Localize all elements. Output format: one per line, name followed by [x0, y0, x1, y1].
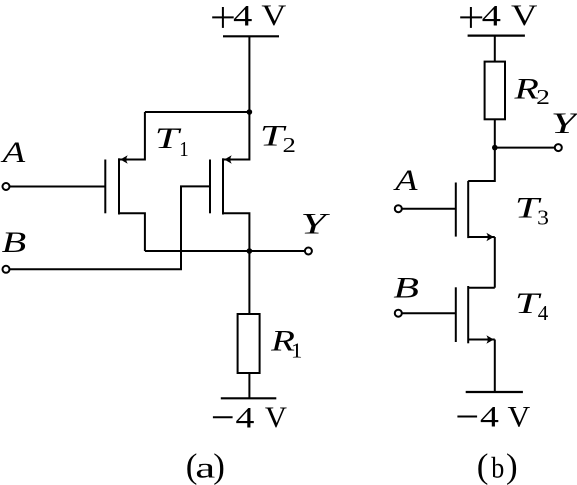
node: output junction (b)	[492, 145, 498, 151]
wire: drain node to T1 drain	[145, 111, 250, 113]
svg-text:V: V	[265, 400, 287, 434]
wire: A to T1 gate	[9, 186, 105, 188]
+4 V supply label (a)	[212, 0, 286, 32]
output terminal Y (b)	[555, 144, 562, 151]
caption (b)	[477, 446, 518, 485]
-4 V supply label (a)	[213, 400, 287, 434]
transistor T4	[456, 286, 495, 344]
svg-text:B: B	[393, 271, 419, 304]
label B (b)	[393, 271, 419, 304]
svg-text:4: 4	[538, 301, 549, 325]
supply rail (a)	[223, 35, 279, 37]
label B (a)	[2, 225, 27, 259]
label T3	[515, 192, 542, 225]
svg-text:4: 4	[233, 0, 252, 32]
resistor R1	[238, 314, 260, 373]
transistor T1	[105, 112, 145, 251]
svg-text:Y: Y	[300, 208, 330, 241]
svg-text:): )	[506, 446, 518, 485]
wire: R1 to ground (a)	[248, 373, 250, 398]
wire: A to T3 gate	[402, 208, 456, 210]
svg-text:): )	[213, 447, 225, 485]
label Y (b)	[551, 108, 577, 141]
label T4	[515, 287, 542, 320]
label Y (a)	[300, 208, 330, 241]
svg-text:Y: Y	[551, 108, 577, 141]
caption (a)	[186, 447, 225, 485]
wire: output node to R1	[248, 251, 250, 314]
svg-text:3: 3	[537, 206, 549, 229]
svg-text:4: 4	[236, 402, 255, 435]
svg-text:A: A	[393, 164, 418, 197]
svg-text:V: V	[261, 0, 286, 32]
label A (b)	[393, 164, 418, 197]
input terminal A (b)	[395, 205, 402, 212]
input terminal B (a)	[3, 266, 10, 273]
label R2	[513, 72, 539, 105]
wire: supply rail to drain node (a)	[248, 36, 250, 112]
node: output junction (a)	[247, 248, 253, 254]
svg-text:a: a	[195, 452, 215, 485]
label A (a)	[0, 136, 25, 169]
output terminal Y (a)	[305, 248, 312, 255]
ground rail -4V (b)	[466, 391, 523, 393]
svg-text:A: A	[0, 136, 25, 169]
wire: output Y (a)	[145, 250, 305, 252]
input terminal A (a)	[3, 183, 10, 190]
input terminal B (b)	[395, 310, 402, 317]
node: T1/T2 drain junction	[247, 109, 253, 115]
-4 V supply label (b)	[457, 400, 530, 434]
+4 V supply label (b)	[460, 0, 537, 32]
resistor R2	[485, 62, 505, 120]
supply rail (b)	[468, 34, 525, 36]
label R1	[270, 324, 295, 358]
svg-text:V: V	[511, 0, 537, 32]
wire: B to T4 gate	[402, 312, 456, 314]
svg-text:V: V	[508, 400, 531, 433]
wire: node to Y terminal (b)	[495, 147, 555, 149]
svg-text:4: 4	[482, 0, 501, 32]
wire: R2 to output node (b)	[494, 119, 496, 147]
svg-text:2: 2	[283, 135, 296, 158]
wire: B to T2 gate	[9, 186, 210, 269]
label T1	[155, 122, 182, 155]
wire: T4 source to ground (b)	[494, 340, 496, 393]
svg-text:b: b	[491, 452, 504, 485]
svg-text:B: B	[2, 225, 27, 259]
wire: T3 source to T4 drain	[494, 237, 496, 288]
svg-text:(: (	[477, 446, 489, 485]
transistor T3	[456, 148, 495, 242]
svg-text:4: 4	[480, 401, 499, 434]
svg-text:R: R	[513, 72, 539, 105]
label T2	[260, 120, 287, 153]
svg-text:1: 1	[291, 338, 303, 362]
wire: supply rail to R2	[494, 36, 496, 62]
svg-text:T: T	[155, 122, 182, 155]
ground rail -4V (a)	[221, 397, 276, 399]
transistor T2	[210, 112, 249, 251]
svg-text:2: 2	[536, 86, 550, 109]
svg-text:1: 1	[179, 138, 188, 161]
